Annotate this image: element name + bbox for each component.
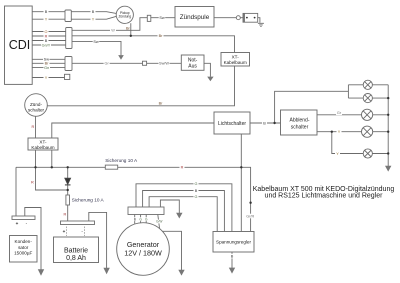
wire bus to diode <box>67 167 69 178</box>
wire Sw CDI row7 to connector <box>32 58 65 60</box>
lamp L1 <box>363 80 372 89</box>
label B wire pickup <box>91 9 96 14</box>
svg-text:B: B <box>263 121 266 125</box>
svg-text:sator: sator <box>18 245 29 250</box>
lamp L4 <box>362 126 373 137</box>
junction node lamp bus 3 <box>387 114 389 116</box>
ground arrow generator connector <box>176 213 182 219</box>
lamp L5 <box>363 149 372 158</box>
svg-text:G/W: G/W <box>156 220 162 224</box>
label Y lamp5 wire <box>335 151 340 156</box>
svg-text:Zündung: Zündung <box>119 15 132 19</box>
label B Lichtschalter wire <box>262 121 267 126</box>
label Br wire main <box>158 34 164 39</box>
wire Gn CDI to square connector <box>72 62 143 64</box>
junction node bus Y <box>51 166 53 168</box>
wire Sw/W to Not-Aus <box>147 62 182 64</box>
connector C6 <box>147 15 151 21</box>
junction node pickup/Br <box>130 35 132 37</box>
XT-Kabelbaum box 2 <box>28 138 58 150</box>
connector C3 <box>65 57 72 71</box>
wire XT harness pins to bus <box>36 150 52 167</box>
wire Sw to chassis arrow <box>72 41 121 55</box>
svg-text:Y: Y <box>45 76 48 80</box>
spark plug connector circle <box>236 16 240 20</box>
Zündspule box <box>175 7 214 28</box>
junction node lamp bus 4 <box>387 131 389 133</box>
ground arrow regulator <box>229 268 235 274</box>
svg-text:O: O <box>45 30 48 34</box>
label G generator pin3 <box>145 217 148 221</box>
wire Gn/Y CDI to connector <box>32 44 65 46</box>
svg-text:Sicherung 10 A: Sicherung 10 A <box>105 158 138 163</box>
ground arrow lamps bus <box>385 166 391 172</box>
label Y lamp4 wire <box>337 129 342 134</box>
wire main bus R <box>16 167 251 231</box>
wire Y CDI to connector <box>32 18 65 20</box>
Not-Aus box <box>181 55 204 70</box>
junction node Abblendschalter feed <box>273 122 275 124</box>
connector C5 <box>143 61 147 65</box>
pickup Zündung circle <box>116 6 133 23</box>
junction node bus battery branch <box>67 166 69 168</box>
battery terminal posts <box>66 227 84 237</box>
ground arrow G/W <box>178 270 184 276</box>
connector C1 <box>65 10 71 22</box>
connector C2 <box>66 28 72 49</box>
wire Br main from connector to XT harness and Zündschalter <box>47 36 234 106</box>
svg-text:B: B <box>45 10 48 14</box>
wire G/W to ground <box>160 231 182 270</box>
wire generator connector to ground <box>160 200 179 213</box>
svg-text:B: B <box>231 255 234 259</box>
label G generator bottom <box>194 194 199 199</box>
svg-text:und RS125 Lichtmaschine und Re: und RS125 Lichtmaschine und Regler <box>265 193 384 200</box>
svg-text:0,8 Ah: 0,8 Ah <box>66 255 86 262</box>
svg-text:15000µF: 15000µF <box>14 250 32 255</box>
label O wire <box>44 29 49 34</box>
svg-text:Gn/Y: Gn/Y <box>42 43 51 47</box>
label G generator top <box>194 182 199 187</box>
label B generator mid <box>194 188 199 193</box>
svg-text:Spannungsregler: Spannungsregler <box>216 240 251 245</box>
label Gr lamp wire <box>336 111 342 116</box>
svg-text:Sw: Sw <box>159 16 165 20</box>
capacitor terminal bar <box>12 216 35 220</box>
junction node G/W generator <box>159 230 161 232</box>
wire Sw connector to Zündspule <box>151 17 175 19</box>
wire Not-Aus to ground <box>204 63 210 77</box>
label Sw wire row7 <box>43 57 50 62</box>
wire O CDI to connector <box>32 31 65 33</box>
svg-text:B: B <box>92 10 95 14</box>
svg-text:Y: Y <box>45 18 48 22</box>
svg-text:schalter: schalter <box>291 124 309 130</box>
svg-text:12V / 180W: 12V / 180W <box>124 249 162 258</box>
Kondensator box <box>10 236 38 263</box>
svg-text:Y: Y <box>338 130 341 134</box>
wire B CDI row3 to connector <box>32 40 65 42</box>
svg-text:Br: Br <box>159 101 164 105</box>
svg-text:Gn: Gn <box>44 66 49 70</box>
earth symbol spark plug <box>258 23 264 26</box>
battery terminal bar <box>61 221 95 225</box>
label Br wire row8 <box>44 61 50 66</box>
label Gr/R regulator wire <box>245 214 256 219</box>
svg-text:R: R <box>32 125 35 129</box>
label Y wire pickup <box>91 17 96 22</box>
ground arrow capacitor <box>38 269 44 275</box>
ground arrow Sw wire <box>118 55 124 60</box>
label R wire <box>44 34 49 39</box>
wire Gr Abblendschalter to lamp <box>317 114 362 116</box>
label Sw/W wire <box>159 61 170 66</box>
label Y wire row10 <box>44 75 49 80</box>
label Gn wire row9 <box>44 65 51 70</box>
wire Lichtschalter feed from bus <box>240 134 242 232</box>
wire Zündspule to spark plug <box>214 17 243 19</box>
wire B connector to pickup <box>71 12 117 14</box>
svg-text:Sicherung 10 A: Sicherung 10 A <box>72 197 105 202</box>
wire node to small lamps <box>275 85 364 123</box>
svg-text:XT-: XT- <box>232 54 240 59</box>
svg-text:schalter: schalter <box>28 107 45 112</box>
ground arrow Not-Aus <box>207 77 213 82</box>
wire Br CDI row8 to connector <box>32 62 65 64</box>
junction node bus Lichtschalter <box>240 166 242 168</box>
Generator circle <box>117 223 170 276</box>
svg-text:Aus: Aus <box>188 64 197 70</box>
svg-text:Zündspule: Zündspule <box>180 14 210 21</box>
wire battery minus to ground <box>89 212 107 268</box>
svg-text:Gr/R: Gr/R <box>246 214 254 218</box>
Abblendschalter box <box>281 110 318 135</box>
svg-text:Zünd-: Zünd- <box>30 102 42 107</box>
wire Y CDI bottom row <box>32 77 64 79</box>
wire generator G bottom to regulator <box>149 197 217 232</box>
wire capacitor minus to ground <box>25 208 41 270</box>
CDI box U1 <box>5 6 33 84</box>
wire Lichtschalter to Abblendschalter <box>250 122 281 124</box>
wire Gn CDI row9 to connector <box>32 67 65 69</box>
junction node Y lamps <box>331 131 333 133</box>
wire R branch to battery node <box>36 167 68 190</box>
wire R CDI to connector <box>32 35 65 37</box>
svg-text:Gr: Gr <box>104 62 109 66</box>
label B wire 1 <box>44 9 49 14</box>
svg-text:Sw/W: Sw/W <box>159 62 169 66</box>
svg-text:-: - <box>81 229 83 234</box>
wire generator G top to regulator <box>136 184 232 232</box>
svg-text:Gr: Gr <box>337 111 342 115</box>
wire R Zündschalter to XT harness <box>35 116 37 138</box>
lamp L3 <box>362 109 373 120</box>
wire regulator B output <box>231 252 233 268</box>
wire capacitor plus <box>15 167 17 216</box>
svg-text:Lichtschalter: Lichtschalter <box>218 121 246 127</box>
wire spark plug to earth <box>258 18 260 23</box>
svg-text:R: R <box>31 180 34 184</box>
label Y wire 2 <box>44 17 49 22</box>
spark plug box <box>243 13 258 22</box>
label R bus <box>180 165 185 170</box>
svg-text:Y: Y <box>92 18 95 22</box>
svg-text:G: G <box>195 195 198 199</box>
svg-text:Konden-: Konden- <box>15 239 33 244</box>
svg-text:Y: Y <box>336 152 339 156</box>
svg-text:Sw: Sw <box>93 40 99 44</box>
label G generator pin2 <box>139 217 142 221</box>
svg-text:B: B <box>45 39 48 43</box>
junction node bus R branch <box>34 166 36 168</box>
wire Y Abblendschalter to lamp <box>317 131 362 133</box>
Lichtschalter box <box>214 112 250 134</box>
junction node lamp bus 2 <box>387 97 389 99</box>
svg-text:XT-: XT- <box>39 139 47 144</box>
svg-text:G: G <box>195 182 198 186</box>
wire lamp right stubs and bus <box>372 85 388 166</box>
wire generator B mid to regulator <box>143 191 225 232</box>
battery polarity labels <box>63 229 84 234</box>
svg-text:B: B <box>134 217 136 221</box>
diode battery branch <box>65 178 71 185</box>
svg-text:Kabelbaum: Kabelbaum <box>31 145 54 150</box>
wire pickup to Br node <box>130 23 132 36</box>
label G/W generator pin <box>155 220 163 224</box>
svg-text:+: + <box>16 221 19 226</box>
Zündschalter circle <box>25 94 48 117</box>
svg-text:R: R <box>64 212 67 216</box>
lamp L2 <box>363 94 372 103</box>
wire Y connector to pickup <box>71 16 117 19</box>
wire B CDI to connector <box>32 11 65 13</box>
svg-text:R: R <box>45 34 48 38</box>
label Gn/Y wire <box>41 43 51 48</box>
wire diode to fuse <box>67 185 69 195</box>
label Gr wire <box>104 61 110 66</box>
label B regulator output <box>230 254 235 259</box>
generator connector box <box>128 207 164 215</box>
label B wire row3 <box>44 38 49 43</box>
wire XT harness to Lichtschalter <box>52 123 214 138</box>
Spannungsregler box <box>213 232 254 253</box>
wire Y branch to lamp 5 <box>332 132 363 154</box>
svg-text:Kabelbaum: Kabelbaum <box>224 60 247 65</box>
junction node battery R <box>67 189 69 191</box>
label Sw wire arrow <box>93 39 100 44</box>
svg-text:Abblend-: Abblend- <box>289 118 309 124</box>
svg-text:B: B <box>195 189 198 193</box>
fuse F1 Sicherung <box>105 165 117 169</box>
label B generator pin <box>133 217 136 221</box>
junction node lamp bus 5 <box>387 152 389 154</box>
capacitor polarity labels <box>16 221 28 226</box>
svg-text:Batterie: Batterie <box>64 247 88 254</box>
svg-text:R: R <box>181 166 184 170</box>
XT-Kabelbaum box 1 <box>221 53 250 67</box>
label W wire <box>110 28 116 33</box>
svg-text:CDI: CDI <box>9 38 31 52</box>
label Sw wire coil <box>159 15 166 20</box>
ground arrow battery <box>103 268 109 274</box>
junction node Gr/R wire <box>249 202 251 204</box>
svg-text:+: + <box>63 229 66 234</box>
wire fuse to battery <box>67 205 69 221</box>
svg-text:W: W <box>111 29 115 33</box>
Batterie box <box>54 237 99 263</box>
fuse F2 Sicherung <box>66 195 70 205</box>
wire generator pins to stator <box>135 215 160 232</box>
wire W to ignition coil <box>72 18 147 31</box>
connector C4 <box>65 74 70 79</box>
svg-text:-: - <box>26 221 28 226</box>
